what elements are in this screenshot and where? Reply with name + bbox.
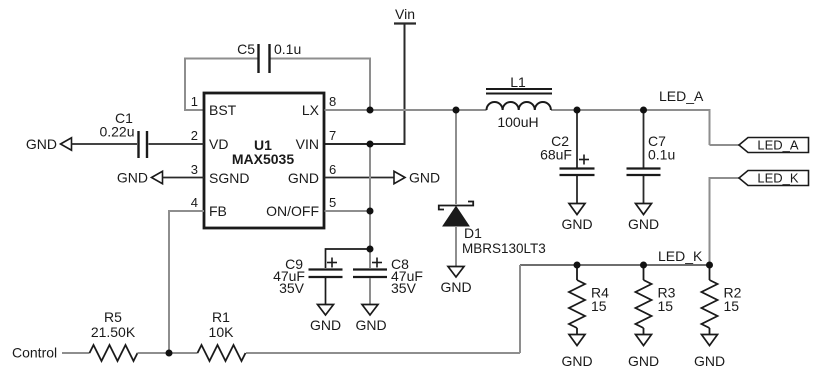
wire bottom net R1 to riser xyxy=(246,352,520,354)
wire D1 top lead xyxy=(455,110,457,204)
svg-text:FB: FB xyxy=(209,203,227,219)
wire C9 branch from VIN node xyxy=(326,249,371,268)
svg-text:D1: D1 xyxy=(464,225,482,241)
ground under C2 xyxy=(561,204,592,233)
port tag LED_A xyxy=(739,138,809,153)
svg-text:LED_K: LED_K xyxy=(658,248,703,264)
svg-text:GND: GND xyxy=(628,353,659,369)
node BST loop / LX xyxy=(367,107,374,114)
ground under R3 xyxy=(628,335,659,370)
wire pin 6 GND xyxy=(325,177,395,179)
wire C2 leads xyxy=(576,110,578,203)
svg-text:GND: GND xyxy=(310,317,341,333)
wire Control to R5 xyxy=(62,352,90,354)
resistor R4 xyxy=(569,265,609,335)
wire pin 4 FB stub and riser to bottom net xyxy=(169,211,204,353)
svg-text:0.1u: 0.1u xyxy=(274,41,301,57)
svg-text:GND: GND xyxy=(288,170,319,186)
capacitor C1 xyxy=(99,110,147,158)
wire riser from bottom net to LED_K xyxy=(519,265,521,353)
svg-text:VD: VD xyxy=(209,136,228,152)
ground under R2 xyxy=(694,335,725,370)
svg-text:5: 5 xyxy=(329,195,336,210)
wire BST loop (pin1 to C5 to LX node) xyxy=(185,59,370,111)
capacitor C8 xyxy=(353,256,423,296)
svg-text:GND: GND xyxy=(355,317,386,333)
svg-text:100uH: 100uH xyxy=(497,114,538,130)
wire GND to C1 xyxy=(72,143,138,145)
svg-text:LED_K: LED_K xyxy=(757,171,799,186)
wire D1 bottom lead xyxy=(455,226,457,266)
node ON/OFF pin5 xyxy=(367,208,374,215)
svg-text:GND: GND xyxy=(409,170,440,186)
node FB/R5/R1 xyxy=(166,350,173,357)
ground GND arrow at pin 6 xyxy=(394,170,440,186)
svg-text:LED_A: LED_A xyxy=(757,138,799,153)
svg-text:BST: BST xyxy=(209,102,237,118)
svg-text:GND: GND xyxy=(440,279,471,295)
node C8/C9 xyxy=(367,246,374,253)
svg-text:LED_A: LED_A xyxy=(659,88,704,104)
node D1 tap xyxy=(453,107,460,114)
wire LED_K tag to LED_K net xyxy=(710,178,740,264)
wire pin 3 SGND xyxy=(163,177,205,179)
svg-text:4: 4 xyxy=(191,195,198,210)
svg-text:LX: LX xyxy=(302,102,320,118)
svg-text:GND: GND xyxy=(694,353,725,369)
node R4 tap xyxy=(574,262,581,269)
svg-text:C5: C5 xyxy=(237,41,255,57)
wire C8 top lead xyxy=(369,249,371,268)
svg-text:15: 15 xyxy=(724,298,740,314)
svg-text:15: 15 xyxy=(658,298,674,314)
svg-text:VIN: VIN xyxy=(296,136,319,152)
ground under D1 xyxy=(440,267,471,296)
node C2 tap xyxy=(574,107,581,114)
svg-text:R1: R1 xyxy=(212,309,230,325)
port tag LED_K xyxy=(739,171,809,186)
ground GND arrow at pin 2 xyxy=(26,136,72,152)
svg-text:GND: GND xyxy=(561,216,592,232)
Vin supply xyxy=(394,6,416,24)
svg-text:GND: GND xyxy=(628,216,659,232)
svg-text:2: 2 xyxy=(191,128,198,143)
wire C9 bottom lead xyxy=(325,278,327,305)
wire Vin vertical to pin7 VIN xyxy=(325,24,405,144)
svg-text:L1: L1 xyxy=(510,74,526,90)
svg-text:68uF: 68uF xyxy=(540,147,572,163)
svg-text:1: 1 xyxy=(191,94,198,109)
op-amp U1 IC box MAX5035 xyxy=(204,93,324,228)
resistor R5 xyxy=(90,309,138,361)
svg-text:6: 6 xyxy=(329,162,336,177)
ground under C7 xyxy=(628,204,659,233)
ground under C8 xyxy=(355,305,386,334)
svg-text:15: 15 xyxy=(591,298,607,314)
diode D1 schottky xyxy=(439,202,546,257)
svg-text:MAX5035: MAX5035 xyxy=(232,151,294,167)
svg-text:10K: 10K xyxy=(209,324,235,340)
svg-text:3: 3 xyxy=(191,162,198,177)
svg-text:35V: 35V xyxy=(279,280,305,296)
capacitor C5 xyxy=(237,41,301,73)
resistor R1 xyxy=(198,309,246,361)
resistor R2 xyxy=(702,265,742,335)
svg-text:21.50K: 21.50K xyxy=(91,324,136,340)
resistor R3 xyxy=(636,265,676,335)
svg-text:GND: GND xyxy=(561,353,592,369)
node C7 tap xyxy=(640,107,647,114)
capacitor C7 xyxy=(627,133,676,175)
svg-text:0.1u: 0.1u xyxy=(648,147,675,163)
svg-text:SGND: SGND xyxy=(209,170,249,186)
wire pin 5 stub xyxy=(325,210,371,212)
wire C8 bottom lead xyxy=(369,278,371,305)
ground under C9 xyxy=(310,305,341,334)
capacitor C9 xyxy=(273,256,342,296)
wire C7 leads xyxy=(643,110,645,203)
wire LX run (pin 8 to L1 and LED_A corner) xyxy=(325,110,740,145)
node VIN pin7 xyxy=(367,141,374,148)
inductor L1 xyxy=(486,74,552,130)
svg-text:35V: 35V xyxy=(391,280,417,296)
ground under R4 xyxy=(561,335,592,370)
ground GND arrow at pin 3 xyxy=(117,170,163,186)
svg-text:GND: GND xyxy=(26,136,57,152)
svg-text:8: 8 xyxy=(329,94,336,109)
svg-text:R5: R5 xyxy=(104,309,122,325)
node R3 tap xyxy=(640,262,647,269)
wire LED_K run xyxy=(520,264,710,266)
svg-text:0.22u: 0.22u xyxy=(99,124,134,140)
svg-text:ON/OFF: ON/OFF xyxy=(266,203,319,219)
capacitor C2 xyxy=(540,133,594,175)
svg-text:Vin: Vin xyxy=(395,6,415,22)
svg-text:Control: Control xyxy=(12,345,57,361)
wire C1 to pin 2 VD xyxy=(149,143,205,145)
wire VIN node vertical (pin7 to ON/OFF to C8/C9) xyxy=(369,145,371,249)
wire R5 to FB junction to R1 xyxy=(138,352,198,354)
svg-text:GND: GND xyxy=(117,170,148,186)
svg-text:7: 7 xyxy=(329,128,336,143)
node R2 / LED_K xyxy=(706,262,713,269)
svg-text:MBRS130LT3: MBRS130LT3 xyxy=(462,241,546,256)
